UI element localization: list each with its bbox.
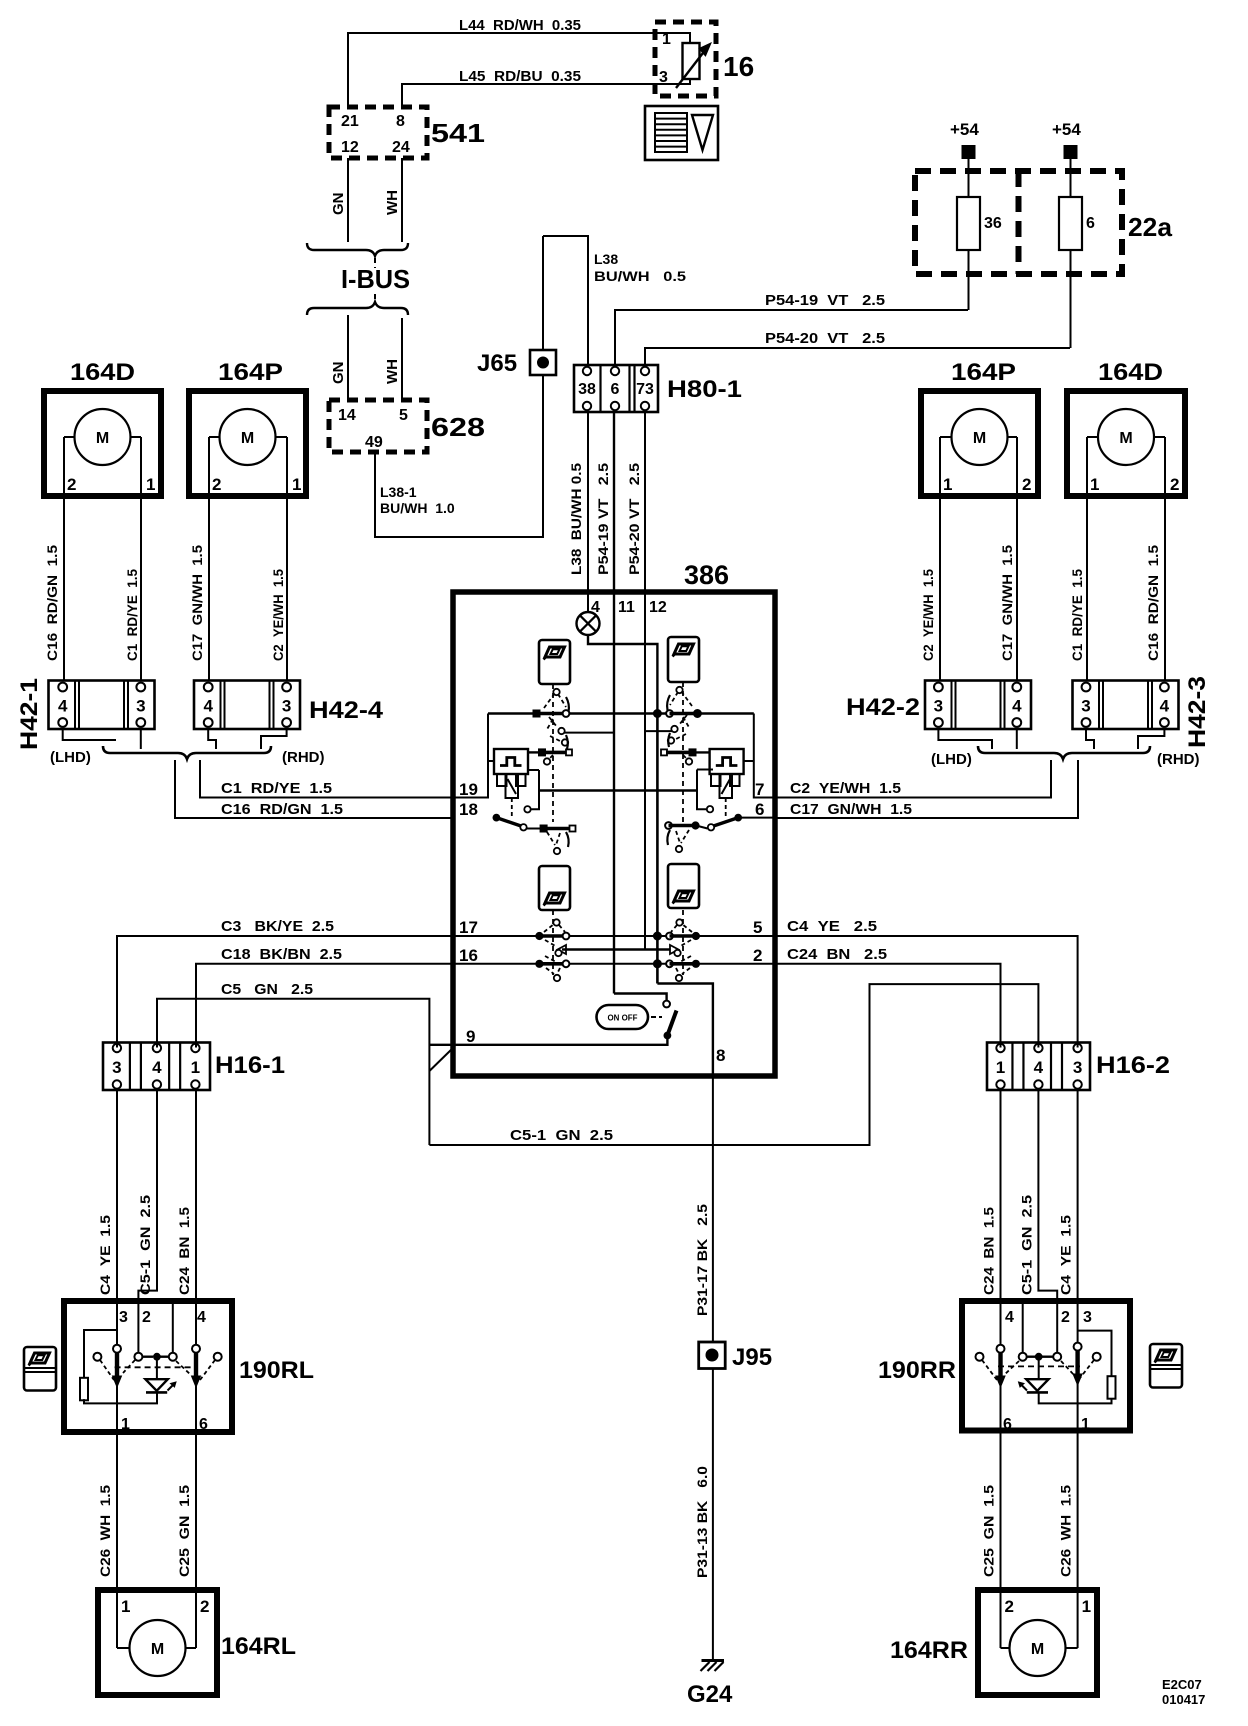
wire P54-20 VT 2.5 (fuse6 to H80-1 pin73) — [645, 348, 1070, 365]
pin 9 wire — [429, 1036, 667, 1045]
svg-text:36: 36 — [984, 215, 1002, 232]
line 17-5 y=936 — [453, 935, 775, 937]
svg-text:3: 3 — [136, 696, 145, 715]
connector H16-1 — [103, 1043, 210, 1091]
svg-text:C5-1 GN 2.5: C5-1 GN 2.5 — [510, 1127, 613, 1144]
svg-text:2: 2 — [753, 946, 762, 965]
svg-text:11: 11 — [618, 599, 635, 616]
svg-text:H42-4: H42-4 — [309, 697, 384, 724]
svg-text:1: 1 — [943, 475, 952, 494]
190RL pin4 wire + contact — [195, 1301, 197, 1345]
190RR side contacts + dashed links — [976, 1353, 984, 1361]
svg-text:4: 4 — [58, 696, 68, 715]
wire C16 RD/GN 1.5 — [1164, 496, 1166, 681]
svg-text:12: 12 — [649, 599, 667, 616]
svg-text:22a: 22a — [1128, 212, 1173, 242]
wire L38-1 BU/WH 1.0 from 628-49 to splice J65 — [375, 375, 543, 537]
wire C25 GN 1.5 (190RR-6 to 164RR-2) — [1000, 1431, 1002, 1591]
wire C26 WH 1.5 (190RR-1 to 164RR-1) — [1077, 1431, 1079, 1591]
wire C16 RD/GN 1.5 (164D-2 to H42-1-4) — [63, 496, 65, 681]
wire L38 BU/WH 0.5 top run to H80-1 pin 38 — [543, 236, 588, 365]
left lower fan — [552, 910, 554, 975]
svg-text:3: 3 — [1073, 1058, 1082, 1077]
bar2 right (down contact) — [661, 749, 667, 755]
svg-text:3: 3 — [112, 1058, 121, 1077]
component 16 sun sensor (dashed box) — [655, 22, 716, 96]
one-touch pulse module right — [710, 749, 744, 774]
fan centerline dashed (left top) — [552, 684, 554, 822]
svg-text:C5-1 GN 2.5: C5-1 GN 2.5 — [1019, 1195, 1035, 1295]
wire GN from 541-12 — [347, 158, 349, 242]
190RR pin4 wire + contact — [1000, 1301, 1002, 1345]
svg-text:1: 1 — [1081, 1416, 1090, 1433]
svg-text:H42-3: H42-3 — [1184, 676, 1211, 748]
mid contact line y=949.5 — [562, 948, 673, 950]
svg-text:C5 GN 2.5: C5 GN 2.5 — [221, 981, 313, 998]
window icon bottom-left — [539, 866, 570, 910]
pin 6 changeover lever — [735, 814, 742, 821]
RHD hook wires from H42-3 — [1086, 729, 1094, 749]
I-BUS dashed link — [374, 258, 376, 268]
RHD hook wires from H42-4 — [208, 729, 216, 749]
svg-text:4: 4 — [203, 696, 213, 715]
wire C2 YE/WH 1.5 — [286, 496, 288, 681]
190RR levers — [998, 1353, 1002, 1378]
ECU 628 (dashed box) — [329, 400, 427, 452]
svg-text:2: 2 — [1061, 1309, 1070, 1326]
wire C1 RD/YE 1.5 (164D-1 to H42-1-3) — [140, 496, 142, 681]
mech link dashed — [511, 798, 513, 817]
svg-text:1: 1 — [292, 475, 301, 494]
svg-text:C4 YE 2.5: C4 YE 2.5 — [787, 918, 877, 935]
wire GN to 628-14 — [347, 315, 349, 400]
svg-text:G24: G24 — [687, 1681, 733, 1708]
connector H42-3 — [1073, 681, 1179, 730]
fan R3 below — [681, 830, 689, 843]
wire C24 BN 1.5 (H16-2-1 to 190RR-4) — [1000, 1090, 1002, 1301]
bar1 right (up contact) — [666, 710, 673, 717]
svg-text:21: 21 — [341, 113, 359, 130]
190RL levers — [115, 1353, 119, 1378]
I-BUS brace lower — [307, 302, 408, 315]
svg-text:ON OFF: ON OFF — [608, 1013, 638, 1023]
svg-text:L38-1: L38-1 — [380, 484, 417, 500]
svg-text:C17 GN/WH 1.5: C17 GN/WH 1.5 — [790, 801, 912, 818]
svg-text:M: M — [1119, 430, 1132, 447]
svg-text:1: 1 — [1082, 1597, 1091, 1616]
wire C3 BK/YE 2.5 (386-17 to H16-1-3) — [117, 936, 453, 1048]
190RL resistor branch — [84, 1330, 117, 1378]
svg-text:3: 3 — [934, 696, 943, 715]
svg-text:5: 5 — [399, 407, 408, 424]
ground bus vertical — [656, 714, 659, 984]
svg-text:2: 2 — [200, 1597, 209, 1616]
svg-text:14: 14 — [338, 407, 356, 424]
one-touch pulse module left — [494, 749, 528, 774]
wire C5-1 GN 2.5 (H16-1-4 to 190RL-2) — [138, 1090, 157, 1301]
mid contact line y=732.6 left — [563, 732, 614, 734]
switch 190RL box — [64, 1301, 232, 1432]
relay element below pulse module — [497, 774, 507, 786]
wire C5-1 GN 2.5 (H16-2-4 to 190RR-2) — [1038, 1090, 1057, 1301]
svg-text:WH: WH — [384, 190, 401, 215]
svg-text:1: 1 — [121, 1416, 130, 1433]
wire C4 YE 2.5 (386-5 to H16-2-3) — [775, 936, 1078, 1048]
fan L2 dashes — [549, 717, 557, 727]
svg-text:9: 9 — [466, 1027, 475, 1046]
svg-text:J65: J65 — [477, 350, 517, 377]
svg-text:P54-19 VT 2.5: P54-19 VT 2.5 — [765, 292, 885, 309]
switch 190RR box — [962, 1301, 1130, 1431]
fan centerline dashed (right top) — [682, 682, 684, 822]
wire P54-20 VT 2.5 into 386 pin 12 — [644, 412, 646, 950]
svg-text:P54-20 VT 2.5: P54-20 VT 2.5 — [626, 463, 642, 575]
bar1 left (up contact) — [533, 710, 540, 717]
svg-text:1: 1 — [121, 1597, 130, 1616]
control unit 386 box — [453, 592, 775, 1076]
svg-text:2: 2 — [1022, 475, 1031, 494]
on/off lever — [668, 1011, 677, 1036]
splice J65 — [542, 236, 544, 350]
wire C17 GN/WH 1.5 — [208, 496, 210, 681]
svg-text:(LHD): (LHD) — [50, 749, 91, 766]
fan R1 contacts — [676, 687, 682, 693]
svg-text:6: 6 — [1086, 215, 1095, 232]
svg-text:C2 YE/WH 1.5: C2 YE/WH 1.5 — [270, 569, 286, 661]
aux contact + wire (right) — [697, 769, 713, 771]
svg-text:2: 2 — [142, 1309, 151, 1326]
svg-text:BU/WH 0.5: BU/WH 0.5 — [594, 268, 686, 284]
svg-text:3: 3 — [119, 1309, 128, 1326]
svg-text:4: 4 — [197, 1309, 206, 1326]
wire P31-13 BK 6.0 (J95 to G24) — [712, 1369, 714, 1661]
svg-text:H80-1: H80-1 — [667, 376, 742, 403]
bar3 right — [665, 822, 672, 829]
connector H16-2 — [987, 1043, 1090, 1091]
svg-text:H16-1: H16-1 — [215, 1052, 285, 1079]
190RL side contacts + dashed links — [93, 1353, 101, 1361]
svg-text:C24 BN 1.5: C24 BN 1.5 — [981, 1207, 997, 1295]
mid contact line y=732.6 right — [645, 730, 673, 732]
connector H80-1 — [574, 365, 658, 412]
svg-text:M: M — [151, 1641, 164, 1658]
up-contact bar line y=713.5 — [488, 712, 754, 714]
lamp wire to ground bus — [588, 635, 657, 714]
svg-text:6: 6 — [199, 1416, 208, 1433]
fuse holder box 22a (dashed) — [915, 171, 1122, 274]
aux contact + wire (left) — [529, 769, 540, 771]
svg-text:2: 2 — [67, 475, 76, 494]
svg-text:C17 GN/WH 1.5: C17 GN/WH 1.5 — [999, 545, 1015, 661]
svg-text:L38 BU/WH 0.5: L38 BU/WH 0.5 — [568, 463, 584, 575]
svg-text:C4 YE 1.5: C4 YE 1.5 — [1058, 1215, 1074, 1295]
wire L44 RD/WH 0.35 — [348, 33, 690, 107]
svg-text:C26 WH 1.5: C26 WH 1.5 — [1058, 1485, 1074, 1577]
wire L45 RD/BU 0.35 — [402, 79, 690, 107]
svg-text:C1 RD/YE 1.5: C1 RD/YE 1.5 — [1069, 569, 1085, 661]
fan L3 below — [547, 832, 555, 845]
svg-text:H42-1: H42-1 — [16, 678, 43, 750]
button link dashed — [651, 1016, 662, 1018]
svg-text:P54-19 VT 2.5: P54-19 VT 2.5 — [595, 463, 611, 575]
190RR bottom wires — [1000, 1385, 1002, 1431]
wire WH from 541-24 — [401, 158, 403, 242]
190RR diode — [1026, 1379, 1048, 1391]
svg-text:C5-1 GN 2.5: C5-1 GN 2.5 — [137, 1195, 153, 1295]
svg-text:C1 RD/YE 1.5: C1 RD/YE 1.5 — [221, 780, 332, 797]
svg-text:164RL: 164RL — [221, 1633, 296, 1660]
svg-text:C3 BK/YE 2.5: C3 BK/YE 2.5 — [221, 918, 334, 935]
svg-text:6: 6 — [1003, 1416, 1012, 1433]
svg-text:73: 73 — [636, 381, 654, 398]
svg-text:6: 6 — [611, 381, 620, 398]
ECU 541 (dashed box) — [329, 107, 427, 158]
LHD hook wires from H42-2 — [938, 729, 992, 749]
svg-text:C17 GN/WH 1.5: C17 GN/WH 1.5 — [189, 545, 205, 661]
svg-text:C16 RD/GN 1.5: C16 RD/GN 1.5 — [221, 801, 343, 818]
svg-text:16: 16 — [459, 946, 478, 965]
svg-text:24: 24 — [392, 139, 410, 156]
lamp (illumination) — [577, 612, 600, 635]
svg-text:C1 RD/YE 1.5: C1 RD/YE 1.5 — [124, 569, 140, 661]
ON OFF button — [597, 1005, 649, 1029]
relay element below pulse module right — [711, 774, 721, 786]
svg-text:M: M — [96, 430, 109, 447]
svg-text:18: 18 — [459, 800, 478, 819]
line 16-2 y=963.8 — [453, 963, 775, 965]
svg-text:L45 RD/BU 0.35: L45 RD/BU 0.35 — [459, 68, 581, 85]
LHD/RHD selection brace (left) — [103, 746, 271, 759]
svg-text:3: 3 — [282, 696, 291, 715]
motor 164RR — [978, 1590, 1097, 1695]
svg-text:628: 628 — [431, 412, 485, 442]
svg-text:C2 YE/WH 1.5: C2 YE/WH 1.5 — [920, 569, 936, 661]
wire C17 GN/WH 1.5 — [1016, 496, 1018, 681]
svg-text:49: 49 — [365, 434, 383, 451]
icon solar/vent symbol box — [645, 106, 718, 160]
svg-text:1: 1 — [146, 475, 155, 494]
svg-text:E2C07: E2C07 — [1162, 1677, 1202, 1692]
junction lamp/ground at 657,713 — [653, 710, 661, 718]
svg-text:8: 8 — [396, 113, 405, 130]
wire C1 RD/YE 1.5 to 386 pin 19 — [200, 760, 453, 798]
wire C4 YE 1.5 (H16-2-3 to 190RR-3) — [1077, 1090, 1079, 1301]
svg-text:164P: 164P — [951, 359, 1016, 386]
svg-text:H42-2: H42-2 — [846, 694, 920, 721]
svg-text:C25 GN 1.5: C25 GN 1.5 — [981, 1485, 997, 1577]
window icon top-right — [668, 637, 699, 682]
190RL pin3 wire + contact — [116, 1301, 118, 1345]
svg-text:(RHD): (RHD) — [282, 749, 325, 766]
svg-text:1: 1 — [191, 1058, 200, 1077]
wire P31-17 BK 2.5 (386-8 to J95) — [712, 1076, 714, 1342]
svg-text:(LHD): (LHD) — [931, 751, 972, 768]
190RR pin3 wire + contact — [1077, 1301, 1079, 1343]
svg-text:H16-2: H16-2 — [1096, 1052, 1170, 1079]
190RL pin2 wire + contacts — [137, 1301, 139, 1353]
svg-text:2: 2 — [1170, 475, 1179, 494]
svg-text:C16 RD/GN 1.5: C16 RD/GN 1.5 — [44, 545, 60, 661]
svg-text:5: 5 — [753, 918, 762, 937]
fan L1 contacts — [553, 689, 559, 695]
wire C1 RD/YE 1.5 — [1086, 496, 1088, 681]
svg-text:16: 16 — [723, 51, 754, 82]
svg-text:12: 12 — [341, 139, 359, 156]
svg-text:4: 4 — [1012, 696, 1022, 715]
I-BUS brace upper — [307, 243, 408, 256]
svg-text:P31-13 BK 6.0: P31-13 BK 6.0 — [694, 1466, 710, 1578]
svg-text:C2 YE/WH 1.5: C2 YE/WH 1.5 — [790, 780, 901, 797]
svg-text:C18 BK/BN 2.5: C18 BK/BN 2.5 — [221, 946, 342, 963]
svg-text:164P: 164P — [218, 359, 283, 386]
wire C2 YE/WH 1.5 to 386 pin 7 — [775, 760, 1051, 798]
rheostat symbol in 16 — [683, 43, 700, 79]
svg-text:164D: 164D — [1098, 359, 1163, 386]
wire C24 BN 2.5 (386-2 to H16-2-1) — [775, 964, 1001, 1048]
svg-text:010417: 010417 — [1162, 1692, 1205, 1707]
pin 18 changeover lever — [493, 814, 500, 821]
pin 6 wire stub — [741, 817, 775, 819]
svg-text:38: 38 — [578, 381, 596, 398]
svg-text:3: 3 — [1081, 696, 1090, 715]
svg-text:3: 3 — [659, 69, 668, 86]
svg-text:7: 7 — [755, 780, 764, 799]
svg-text:I-BUS: I-BUS — [341, 264, 410, 294]
wire C16 RD/GN 1.5 to 386 pin 18 — [175, 760, 453, 818]
pin 11 wire to on/off contact — [614, 994, 667, 1001]
svg-text:19: 19 — [459, 780, 478, 799]
svg-text:541: 541 — [431, 118, 485, 148]
svg-text:6: 6 — [755, 800, 764, 819]
window icon beside 190RR — [1150, 1344, 1182, 1388]
svg-text:386: 386 — [684, 560, 729, 590]
svg-text:164RR: 164RR — [890, 1637, 968, 1664]
svg-text:GN: GN — [330, 362, 347, 385]
fan R2 dashes — [679, 715, 687, 725]
wire C26 WH 1.5 (190RL-1 to 164RL-1) — [116, 1432, 118, 1590]
svg-text:C24 BN 2.5: C24 BN 2.5 — [787, 946, 887, 963]
190RR pin2 wire + contacts — [1056, 1301, 1058, 1353]
svg-text:BU/WH 1.0: BU/WH 1.0 — [380, 500, 455, 516]
svg-text:4: 4 — [1005, 1309, 1014, 1326]
svg-text:4: 4 — [152, 1058, 162, 1077]
svg-text:M: M — [973, 430, 986, 447]
LHD/RHD selection brace (right) — [978, 746, 1150, 759]
svg-text:8: 8 — [716, 1046, 725, 1065]
LHD hook wires from H42-1 — [63, 729, 116, 740]
svg-text:1: 1 — [662, 31, 671, 48]
svg-text:J95: J95 — [732, 1344, 772, 1371]
pin 19 internal riser to up-bar — [453, 714, 488, 798]
svg-text:190RL: 190RL — [239, 1357, 314, 1384]
wire P54-19 VT 2.5 (fuse36 to H80-1 pin6) — [615, 310, 968, 365]
wire C17 GN/WH 1.5 to 386 pin 6 — [775, 760, 1078, 818]
svg-text:190RR: 190RR — [878, 1357, 956, 1384]
svg-text:17: 17 — [459, 918, 478, 937]
svg-text:WH: WH — [384, 359, 401, 384]
svg-text:M: M — [1031, 1641, 1044, 1658]
svg-text:1: 1 — [1090, 475, 1099, 494]
svg-text:C16 RD/GN 1.5: C16 RD/GN 1.5 — [1145, 545, 1161, 661]
190RR resistor branch — [1078, 1331, 1112, 1377]
right lower fan — [682, 910, 684, 975]
window icon bottom-right — [668, 864, 699, 908]
wire C18 BK/BN 2.5 (386-16 to H16-1-1) — [196, 964, 453, 1048]
fuse 36 — [957, 197, 980, 250]
svg-text:C24 BN 1.5: C24 BN 1.5 — [176, 1207, 192, 1295]
svg-text:1: 1 — [996, 1058, 1005, 1077]
wire C24 BN 1.5 (H16-1-1 to 190RL-4) — [195, 1090, 197, 1301]
mech link dashed right — [725, 798, 727, 817]
window icon top-left — [539, 640, 570, 684]
junction dots ground bus lower — [653, 932, 661, 940]
190RL dashed mech link — [115, 1366, 197, 1368]
svg-text:2: 2 — [212, 475, 221, 494]
connector H42-4 — [194, 681, 300, 730]
wire C25 GN 1.5 (190RL-6 to 164RL-2) — [195, 1432, 197, 1590]
svg-text:2: 2 — [1005, 1597, 1014, 1616]
wire C4 YE 1.5 (H16-1-3 to 190RL-3) — [116, 1090, 118, 1301]
190RL diode — [145, 1379, 167, 1391]
svg-text:M: M — [241, 430, 254, 447]
cross-link line y=790.5 — [539, 789, 697, 791]
wire C2 YE/WH 1.5 — [939, 496, 941, 681]
svg-text:4: 4 — [1160, 696, 1170, 715]
svg-text:(RHD): (RHD) — [1157, 751, 1200, 768]
wire C5-1 GN 2.5 run — [429, 984, 1038, 1145]
svg-text:C26 WH 1.5: C26 WH 1.5 — [97, 1485, 113, 1577]
svg-text:+54: +54 — [950, 120, 979, 139]
pin 7 internal riser — [754, 714, 775, 798]
ground G24 — [702, 1659, 725, 1662]
splice J95 — [699, 1342, 726, 1369]
svg-text:3: 3 — [1083, 1309, 1092, 1326]
window icon beside 190RL — [24, 1347, 56, 1391]
190RR dashed mech link — [998, 1365, 1080, 1367]
bar3 left — [540, 825, 547, 832]
wire L38 BU/WH 0.5 into 386 pin 4 — [587, 412, 589, 613]
fuse 6 — [1059, 197, 1082, 250]
svg-text:P31-17 BK 2.5: P31-17 BK 2.5 — [694, 1204, 710, 1316]
svg-text:C25 GN 1.5: C25 GN 1.5 — [176, 1485, 192, 1577]
svg-text:164D: 164D — [70, 359, 135, 386]
190RL bottom wires — [116, 1385, 118, 1432]
ground bus corner to pin 8 — [657, 984, 713, 1077]
svg-text:C4 YE 1.5: C4 YE 1.5 — [97, 1215, 113, 1295]
svg-text:4: 4 — [1034, 1058, 1044, 1077]
svg-text:+54: +54 — [1052, 120, 1081, 139]
pin 9 diagonal exit — [429, 1046, 455, 1071]
svg-text:GN: GN — [330, 193, 347, 216]
motor 164RL — [98, 1590, 217, 1695]
svg-text:P54-20 VT 2.5: P54-20 VT 2.5 — [765, 330, 885, 347]
svg-text:L44 RD/WH 0.35: L44 RD/WH 0.35 — [459, 17, 581, 34]
wire P54-19 VT 2.5 into 386 pin 11 — [613, 412, 615, 994]
svg-text:L38: L38 — [594, 251, 618, 267]
wire C5 GN 2.5 (H16-1-4 up/over) — [157, 999, 429, 1145]
bar2 left (down contact) — [539, 749, 546, 756]
wire WH to 628-5 — [401, 318, 403, 400]
